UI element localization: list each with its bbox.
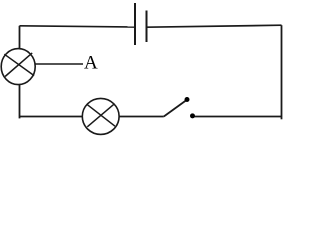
- wire top-left segment: [20, 26, 135, 27]
- switch S1 contact dot: [190, 113, 195, 118]
- battery B1 right plate (short): [146, 11, 148, 43]
- svg-text:A: A: [84, 53, 98, 74]
- switch S1 pivot dot: [185, 97, 190, 102]
- lamp L2 (bottom) bulb circle: [82, 98, 119, 134]
- wire bottom-right segment: [195, 116, 282, 118]
- lamp L2 cross stroke 2: [87, 104, 113, 126]
- wire right vertical segment: [281, 25, 283, 119]
- lamp L1 cross stroke 1: [4, 54, 34, 75]
- switch S1 blade: [164, 100, 187, 117]
- lamp L1 cross stroke 2: [5, 53, 32, 77]
- lamp L1 (left) bulb circle: [1, 49, 35, 85]
- lead wire to label A: [35, 63, 83, 65]
- battery B1 left plate (long): [134, 3, 136, 45]
- wire top-right segment: [147, 25, 282, 27]
- lamp L2 cross stroke 1: [87, 104, 115, 126]
- wire bottom-left segment: [20, 116, 164, 118]
- wire left vertical segment: [19, 26, 21, 119]
